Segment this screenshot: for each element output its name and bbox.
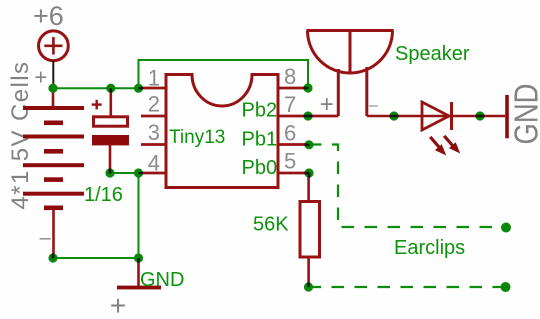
pin 5 stub [278,172,309,175]
pin 1 stub [139,87,167,90]
LED D1 light arrow 1 [429,136,446,156]
wire supply to battery (black) [52,61,54,93]
svg-text:2: 2 [148,92,160,117]
power supply +6 symbol [39,31,69,61]
node ground junction [134,253,143,262]
node pin7 [303,111,312,120]
svg-text:6: 6 [284,121,296,146]
node LED anode [389,111,398,120]
LED D1 light arrow 2 [443,135,460,154]
black wire cores at junctions [53,88,485,287]
svg-text:1/16: 1/16 [84,184,123,206]
svg-text:+: + [34,65,47,90]
earclip dashed wire from resistor [309,286,506,288]
ground symbol (right) [505,95,509,138]
pin 3 stub [141,143,166,146]
node earclip 2 [501,282,511,292]
svg-text:8: 8 [284,64,296,89]
svg-text:5: 5 [284,149,296,174]
svg-text:Earclips: Earclips [394,237,465,259]
capacitor C1 top wire [110,90,113,117]
svg-text:56K: 56K [253,214,289,236]
svg-text:Speaker: Speaker [395,43,470,65]
wire battery minus to ground node [53,257,139,259]
battery B1 cells [23,106,84,210]
IC U1 Tiny13 body [166,75,278,188]
pin 2 stub [141,115,166,118]
wire capacitor to pin4 [110,172,139,174]
node LED cathode / ground [475,111,484,120]
battery bottom wire [52,210,55,258]
wire top net pin1 to pin8 [139,60,309,88]
capacitor C1 negative plate [92,135,129,145]
ground symbol (battery) [117,286,161,290]
svg-text:Pb2: Pb2 [242,99,278,121]
LED D1 cathode bar [450,102,453,130]
node battery bottom [48,253,57,262]
svg-text:–: – [369,97,378,114]
svg-text:+: + [320,91,334,118]
ground stub (battery) [137,258,140,287]
svg-text:+: + [110,290,126,319]
node capacitor top [106,84,115,93]
wire speaker to LED to ground [367,115,505,118]
pin 6 stub [278,143,309,146]
resistor R1 body [300,202,320,258]
LED D1 triangle [422,102,449,130]
wire top rail y=88 [53,87,139,89]
node capacitor bottom [105,168,114,177]
pin 4 stub [139,172,167,175]
svg-text:1: 1 [148,65,160,90]
capacitor C1 plus mark [92,100,102,110]
wire pin4 down to ground node [138,173,140,258]
svg-text:+6: +6 [33,1,64,31]
node pin6 [304,140,313,149]
resistor R1 bottom wire [307,259,310,288]
svg-text:–: – [39,227,51,249]
svg-text:GND: GND [508,84,540,145]
capacitor C1 bottom wire [109,145,112,173]
earclip dashed wire from pin6 [309,145,506,228]
node pin8 [303,83,312,92]
svg-text:Pb0: Pb0 [242,157,278,179]
pin 8 stub [278,87,308,90]
capacitor C1 positive plate [94,117,128,126]
node earclip 1 [501,223,511,233]
node resistor bottom [304,282,313,291]
node pin1 [134,84,143,93]
svg-text:Tiny13: Tiny13 [169,127,225,148]
resistor R1 top wire [307,173,310,200]
speaker LS1 [307,31,394,117]
battery B1 top wire [52,91,55,107]
pin 7 stub wire to speaker [278,115,338,118]
svg-text:GND: GND [140,269,184,291]
node battery top [48,84,57,93]
node pin4 [134,168,143,177]
svg-text:Pb1: Pb1 [242,128,278,150]
svg-text:3: 3 [148,120,160,145]
node pin5 [304,168,313,177]
svg-text:7: 7 [284,92,296,117]
svg-text:4: 4 [148,150,160,175]
